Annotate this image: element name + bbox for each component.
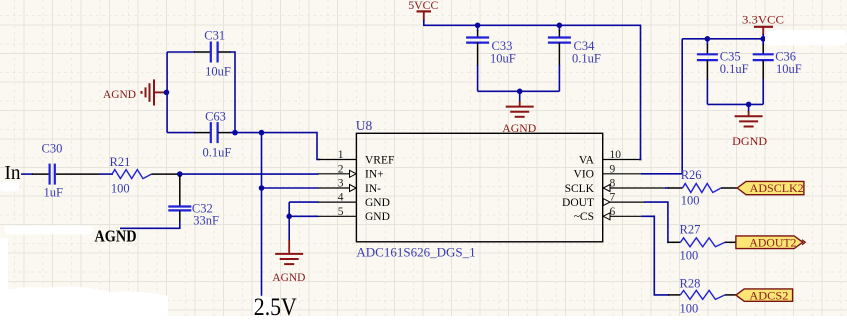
junction 2.5V branch [259, 130, 265, 136]
svg-text:10: 10 [610, 149, 622, 161]
svg-text:~CS: ~CS [574, 211, 594, 223]
capacitor C33 [466, 25, 516, 91]
ground AGND below chip [272, 240, 305, 284]
svg-text:3: 3 [338, 178, 344, 190]
svg-text:100: 100 [680, 302, 699, 316]
capacitor C34 [548, 25, 601, 91]
svg-text:C30: C30 [42, 142, 63, 156]
junction AGND stem [517, 89, 523, 95]
pin 1 VREF [318, 149, 394, 166]
resistor R21 [110, 155, 179, 195]
wire left vertical AGND net [166, 52, 168, 133]
svg-text:5: 5 [338, 206, 344, 218]
svg-text:1uF: 1uF [44, 186, 64, 200]
wire R21 to pin2 IN+ [177, 173, 319, 175]
svg-text:100: 100 [111, 181, 130, 195]
svg-text:0.1uF: 0.1uF [572, 52, 601, 66]
pin 7 DOUT [562, 192, 645, 209]
svg-text:2: 2 [338, 163, 344, 175]
pin 2 IN+ [318, 163, 384, 180]
svg-text:6: 6 [610, 206, 616, 218]
svg-text:2.5V: 2.5V [254, 294, 297, 316]
svg-text:100: 100 [680, 248, 699, 262]
wire pin8 SCLK to R26 [665, 187, 669, 189]
svg-text:10uF: 10uF [490, 52, 516, 66]
pin 9 VIO [574, 163, 682, 180]
white patch below In [0, 181, 19, 192]
svg-text:U8: U8 [356, 118, 373, 133]
pin 5 GND [318, 206, 390, 223]
junction C35 top [705, 36, 711, 42]
junction IN- [259, 185, 265, 191]
svg-text:ADOUT2: ADOUT2 [749, 238, 796, 250]
pin 3 IN- [318, 178, 381, 195]
svg-text:AGND: AGND [103, 87, 136, 101]
svg-text:IN+: IN+ [365, 169, 384, 181]
svg-text:C31: C31 [204, 29, 225, 43]
junction AGND left [164, 90, 170, 96]
wire to pin3 IN- [262, 187, 319, 189]
svg-text:AGND: AGND [95, 227, 137, 246]
chevron after ADOUT2 [802, 240, 805, 245]
wire VIO drop to pin9 [641, 39, 682, 174]
capacitor C32 [168, 175, 219, 228]
junction R21/C32 [177, 171, 183, 177]
wire pin5 GND [289, 215, 318, 217]
capacitor C63 [167, 110, 231, 160]
svg-text:9: 9 [610, 163, 616, 175]
white blob bottom-left [0, 287, 168, 316]
svg-text:8: 8 [610, 178, 616, 190]
junction C34 top [557, 23, 563, 29]
wire 2.5V vertical [261, 133, 263, 296]
svg-text:GND: GND [365, 211, 390, 223]
svg-text:R28: R28 [680, 276, 701, 290]
svg-text:ADCS2: ADCS2 [749, 290, 788, 302]
capacitor C36 [753, 39, 802, 105]
svg-text:SCLK: SCLK [565, 183, 595, 195]
svg-text:VIO: VIO [574, 169, 594, 181]
wire pin7 DOUT to R27 [644, 202, 669, 242]
wire C33/C34 bottom rail [478, 90, 560, 92]
junction C36 top [760, 36, 766, 42]
svg-text:10uF: 10uF [205, 65, 231, 79]
wire pin4 GND [289, 201, 318, 203]
ground AGND below C33/C34 [502, 91, 536, 135]
capacitor C31 [167, 29, 231, 79]
resistor R27 [668, 223, 736, 263]
svg-text:100: 100 [681, 194, 700, 208]
svg-text:3.3VCC: 3.3VCC [742, 12, 784, 26]
svg-text:ADC161S626_DGS_1: ADC161S626_DGS_1 [356, 245, 475, 260]
port ADSCLK2 [737, 181, 804, 195]
svg-text:DOUT: DOUT [562, 197, 594, 209]
junction C33 top [475, 23, 481, 29]
pin 4 GND [318, 192, 390, 209]
svg-text:7: 7 [610, 192, 616, 204]
capacitor C35 [697, 39, 749, 105]
wire AGND drop [288, 202, 290, 240]
capacitor C30 [32, 142, 113, 200]
wire 3.3VCC rail [682, 34, 763, 39]
junction pin5 [286, 214, 292, 220]
port ADCS2 [736, 289, 793, 302]
pin 10 VA [579, 149, 642, 166]
svg-text:VA: VA [579, 154, 595, 166]
svg-text:0.1uF: 0.1uF [203, 146, 232, 160]
power 3.3VCC [742, 12, 784, 35]
port ADOUT2 [736, 236, 805, 250]
pin 6 ~CS [574, 206, 642, 223]
svg-text:4: 4 [338, 192, 344, 204]
svg-text:33nF: 33nF [193, 214, 219, 228]
ground DGND [732, 104, 767, 148]
wire C63 row to pin1 VREF [230, 133, 320, 160]
svg-text:R27: R27 [680, 223, 701, 237]
junction C31 vertical [232, 130, 238, 136]
svg-text:AGND: AGND [502, 121, 536, 135]
resistor R28 [668, 276, 736, 315]
wire C35/C36 bottom rail [707, 103, 763, 105]
wire In to C30 [21, 173, 33, 175]
wire pin6 ~CS to R28 [641, 216, 669, 295]
wire C32 to AGND label [120, 221, 180, 228]
svg-text:1: 1 [338, 149, 344, 161]
svg-text:R26: R26 [681, 168, 702, 182]
svg-text:DGND: DGND [732, 134, 767, 148]
wire C31 right to C63 row [230, 52, 235, 133]
power 5VCC [408, 0, 438, 21]
white patch behind 2.5V [253, 297, 277, 316]
svg-text:GND: GND [365, 197, 390, 209]
svg-text:ADSCLK2: ADSCLK2 [750, 183, 804, 195]
svg-text:In: In [5, 163, 21, 184]
svg-text:R21: R21 [110, 155, 131, 169]
svg-text:5VCC: 5VCC [408, 0, 438, 12]
junction DGND stem [746, 102, 752, 108]
ground AGND left [103, 79, 167, 105]
op-amp U8 ADC161S626 body [356, 133, 602, 242]
svg-text:0.1uF: 0.1uF [720, 62, 749, 76]
wire 5VCC rail to pin10 VA [424, 20, 641, 160]
white band behind AGND text [4, 226, 93, 235]
svg-text:C63: C63 [205, 110, 226, 124]
svg-text:VREF: VREF [365, 154, 394, 166]
white patch right of 3.3VCC [765, 30, 847, 46]
svg-text:IN-: IN- [365, 183, 381, 195]
svg-text:AGND: AGND [272, 270, 305, 284]
pin 8 SCLK [565, 178, 666, 195]
resistor R26 [668, 168, 737, 208]
svg-text:10uF: 10uF [776, 62, 802, 76]
